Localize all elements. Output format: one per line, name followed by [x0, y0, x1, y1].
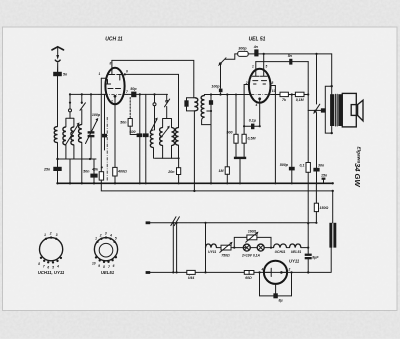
IFT2 secondary: [203, 95, 205, 96]
svg-text:4: 4: [109, 234, 112, 238]
cathode loop with 8u: [260, 272, 292, 296]
svg-text:8µ: 8µ: [279, 299, 283, 303]
svg-text:1: 1: [99, 72, 101, 76]
svg-text:4: 4: [261, 268, 264, 272]
filter choke: [332, 191, 334, 223]
mains terminals: [146, 221, 151, 224]
resistor 300 (screen feed): [235, 53, 238, 55]
svg-text:0,1M: 0,1M: [296, 98, 305, 102]
svg-text:0,1µ: 0,1µ: [249, 119, 256, 123]
wire antenna lead: [57, 63, 59, 72]
svg-text:8: 8: [38, 262, 40, 266]
long vertical return line x=308: [307, 62, 309, 163]
svg-text:10: 10: [92, 262, 96, 266]
svg-text:UY11: UY11: [289, 259, 300, 264]
svg-text:50p: 50p: [130, 87, 137, 91]
resistor 1M grid leak: [226, 95, 228, 167]
svg-text:5: 5: [266, 65, 268, 69]
capacitor 30n: [313, 168, 319, 172]
top wire from UCH11 to IFT1: [112, 60, 194, 97]
svg-text:15n: 15n: [321, 174, 328, 178]
svg-text:6: 6: [113, 264, 115, 268]
svg-text:4: 4: [56, 264, 59, 268]
svg-text:2: 2: [110, 100, 113, 104]
svg-text:8: 8: [272, 81, 274, 85]
svg-text:6: 6: [126, 70, 128, 74]
svg-text:0,1: 0,1: [300, 164, 305, 168]
svg-text:25n: 25n: [43, 168, 51, 172]
capacitor 4n: [254, 49, 258, 56]
resistor 40k (osc grid): [100, 78, 102, 171]
svg-text:Ü44: Ü44: [188, 275, 195, 280]
ground bus: [58, 182, 333, 184]
grid wire top of input coils: [70, 93, 106, 95]
resistor 7k: [271, 94, 281, 96]
svg-text:100p: 100p: [92, 113, 101, 117]
fuse 60: [244, 271, 254, 275]
capacitor 100p (AF coupling): [220, 64, 222, 88]
capacitor 50p: [125, 93, 168, 95]
capacitor 500p to ground: [291, 95, 293, 167]
svg-text:8: 8: [110, 62, 112, 66]
resistor 50n (dotted lead): [129, 98, 131, 119]
coil L1 pair: [69, 94, 71, 109]
svg-text:3: 3: [56, 233, 58, 237]
dropper 150 to mains: [315, 183, 317, 203]
heater UCH11: [271, 247, 274, 249]
tube UEL51: [245, 65, 276, 108]
svg-text:40k: 40k: [91, 168, 99, 172]
heater dropper line: [205, 223, 207, 273]
heater UEL51: [287, 247, 290, 249]
antenna: [52, 47, 64, 62]
svg-text:50n: 50n: [83, 170, 90, 174]
svg-text:9: 9: [98, 264, 100, 268]
svg-text:UEL 51: UEL 51: [249, 37, 266, 43]
svg-text:300p: 300p: [238, 47, 247, 51]
pin1 stub: [101, 77, 106, 79]
wave switch: [219, 58, 226, 66]
svg-text:UEL51: UEL51: [291, 250, 302, 254]
svg-text:6: 6: [47, 266, 49, 270]
svg-text:1: 1: [95, 237, 97, 241]
svg-text:60Ω: 60Ω: [245, 276, 252, 280]
dash-dot gang link: [106, 117, 108, 181]
pin8 line to ground: [270, 86, 275, 184]
svg-text:UCH 11: UCH 11: [105, 37, 123, 43]
capacitor 25n: [57, 159, 59, 183]
svg-text:100p: 100p: [211, 84, 220, 88]
svg-text:5: 5: [115, 237, 117, 241]
tuning arrow through L1/L2: [66, 124, 79, 145]
svg-text:UCH11: UCH11: [275, 250, 286, 254]
resistor 400 (cathode): [114, 104, 116, 167]
output transformer: [325, 86, 342, 133]
svg-text:2×19V 0,1A: 2×19V 0,1A: [241, 254, 261, 258]
wire: [57, 76, 59, 126]
coil bottom wire: [155, 157, 179, 159]
svg-text:3: 3: [105, 232, 107, 236]
svg-text:0,5M: 0,5M: [248, 137, 257, 141]
svg-text:150Ω: 150Ω: [320, 206, 329, 210]
dash-dot axis through UCH11: [98, 93, 133, 95]
pin2 stub and 0,5M divider: [244, 85, 249, 135]
svg-text:1: 1: [252, 65, 254, 69]
resistor 20n: [178, 157, 180, 159]
svg-text:Elgawa: Elgawa: [355, 147, 361, 164]
tube UCH11: [99, 60, 129, 104]
feedback switch branch x=316: [316, 54, 318, 104]
B+ line: [331, 54, 333, 133]
oscillator coil with core circle: [154, 94, 156, 102]
resistor 500: [235, 95, 237, 135]
osc coil (pin6): [175, 128, 178, 146]
svg-text:20n: 20n: [167, 170, 175, 174]
mains top wire: [150, 222, 316, 224]
variable resistor 750: [217, 247, 222, 249]
mains switch (double pole): [173, 223, 176, 273]
svg-text:500p: 500p: [280, 163, 289, 167]
IFT1 primary: [194, 98, 197, 111]
dial lamps: [243, 244, 250, 251]
svg-text:160Ω: 160Ω: [248, 230, 257, 234]
electrolytic 8uF: [305, 254, 312, 256]
wire: [58, 143, 97, 159]
svg-text:8µF: 8µF: [312, 256, 319, 260]
Urdox resistor U44: [187, 270, 195, 274]
second bus to choke: [332, 182, 334, 184]
svg-text:UEL51: UEL51: [101, 270, 115, 275]
capacitor 0,1u: [244, 103, 260, 127]
coil L-ant: [54, 127, 57, 143]
dash-dot axis through UEL51: [231, 94, 272, 96]
svg-text:8: 8: [103, 265, 105, 269]
svg-text:30n: 30n: [318, 164, 325, 168]
grid wire to UEL51: [204, 94, 249, 96]
socket UCH11/UY11: [38, 232, 65, 276]
svg-text:7: 7: [43, 264, 45, 268]
svg-text:UCH11, UY11: UCH11, UY11: [38, 270, 65, 275]
svg-text:600: 600: [130, 130, 136, 134]
svg-text:750Ω: 750Ω: [221, 254, 230, 258]
mains bottom wire: [150, 271, 331, 273]
tone cap wire: [308, 109, 321, 111]
capacitor (second): [145, 94, 147, 133]
rectifier tube UY11: [261, 259, 300, 284]
heater UY11: [206, 244, 217, 248]
svg-text:UY11: UY11: [208, 250, 216, 254]
capacitor 600: [139, 94, 141, 133]
svg-text:5: 5: [52, 266, 54, 270]
resistor 0,1 on return line: [306, 163, 310, 173]
svg-text:2: 2: [288, 268, 291, 272]
switch on L2: [81, 94, 83, 103]
svg-text:7: 7: [126, 90, 128, 94]
pin6 wire to osc coil: [125, 74, 179, 127]
shunt resistor 160 branch: [234, 237, 247, 247]
switch 7 and osc transformer: [166, 94, 168, 99]
capacitor 50n to ground: [93, 159, 95, 183]
svg-text:50n: 50n: [120, 121, 127, 125]
svg-text:2: 2: [99, 234, 102, 238]
svg-text:4n: 4n: [253, 45, 259, 49]
svg-text:7: 7: [108, 265, 110, 269]
svg-text:400Ω: 400Ω: [117, 170, 127, 174]
wire B with 5n cap: [256, 61, 308, 63]
cap 5n on x=104.5: [104, 94, 106, 134]
svg-text:4: 4: [255, 103, 258, 107]
capacitor 5n (antenna series): [53, 72, 62, 76]
coil L2: [81, 110, 83, 125]
socket UEL51: [92, 232, 118, 276]
resistor 0,1M: [295, 92, 304, 96]
UEL51 pin stubs: [255, 62, 257, 69]
svg-text:34 GW: 34 GW: [353, 163, 362, 187]
svg-text:500: 500: [227, 131, 233, 135]
loudspeaker: [342, 93, 363, 127]
svg-text:1: 1: [44, 233, 46, 237]
svg-text:2: 2: [49, 232, 52, 236]
